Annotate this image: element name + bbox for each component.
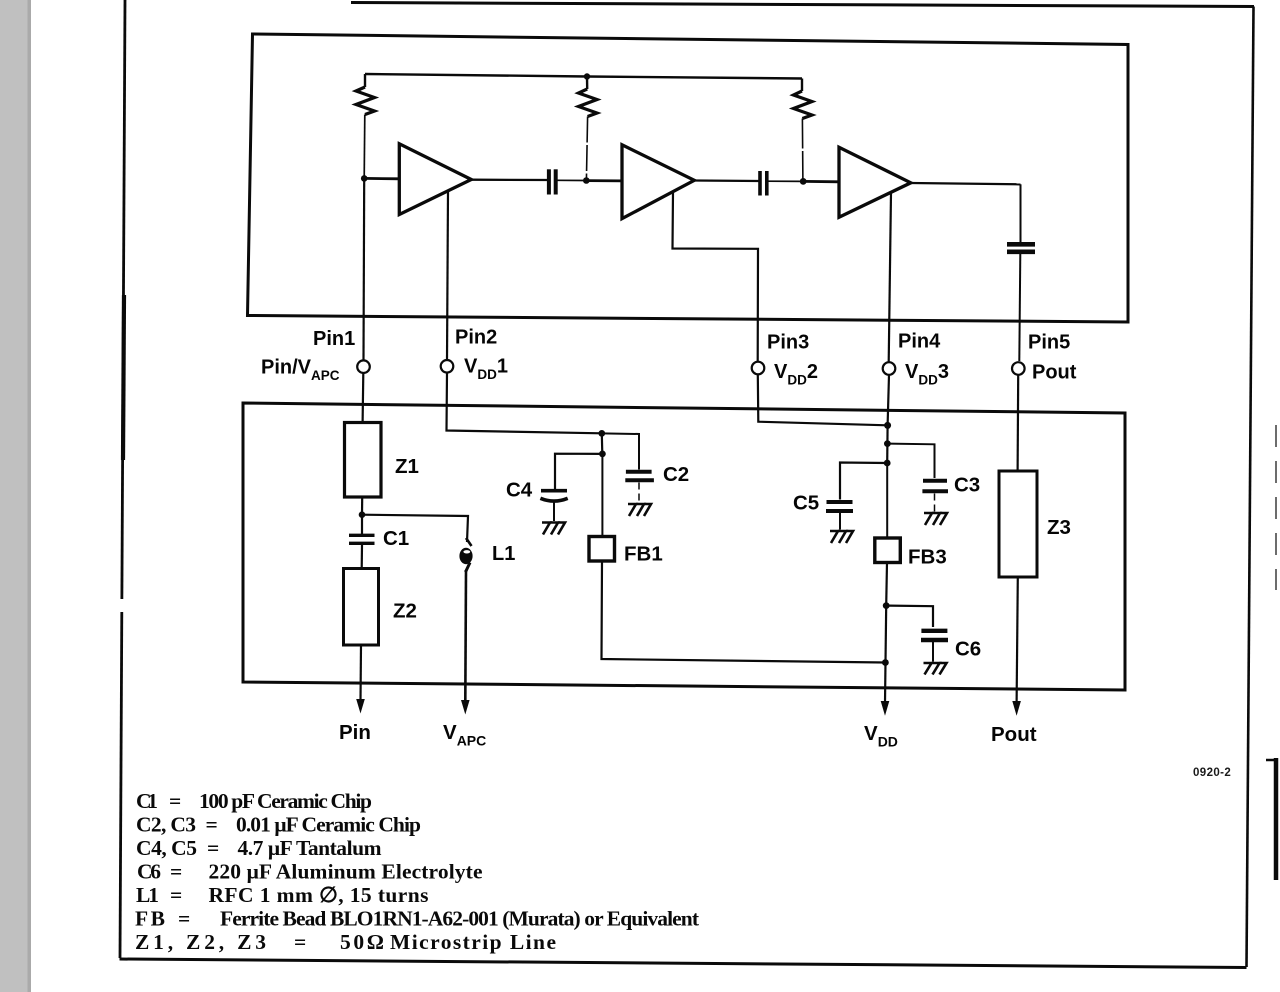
microstrip Z3 [999,471,1037,577]
wire: amp1 Vdd feed to Pin2 [447,192,448,361]
capacitor C3 [922,481,948,512]
node: amp3 input junction [800,178,807,185]
svg-text:C1: C1 [383,527,409,550]
wire: L1 down to Vapc arrow [464,570,467,702]
svg-text:C3: C3 [954,474,980,497]
node: Z1/C1/L1 junction [359,511,366,518]
capacitor (output DC block) [1007,244,1035,252]
wire: amp3 output [911,183,1021,184]
svg-text:VAPC: VAPC [443,721,486,749]
svg-text:Pin: Pin [339,721,371,744]
wire: amp1 output [471,179,549,182]
capacitor (coupling 1) [549,169,556,194]
wire: Z1 to node [361,497,363,515]
svg-text:L1: L1 [492,543,515,565]
svg-text:Pin3: Pin3 [767,332,809,354]
wire: Vdd down to FB3 [886,463,888,538]
pin Pin2 terminal [441,360,454,373]
svg-text:=: = [206,813,218,837]
microstrip Z1 [345,423,382,498]
svg-text:=: = [294,930,306,954]
supply rail wire (top) [365,74,802,79]
wire: amp2 output [694,179,759,182]
resistor R-bias3 [794,79,813,182]
inductor L1 (RFC coil) [459,538,472,572]
svg-text:Microstrip Line: Microstrip Line [390,930,556,954]
pin Pin3 terminal [752,362,765,375]
node: rail junction R-bias2 [584,73,590,79]
svg-text:L1: L1 [136,883,159,907]
svg-text:C1: C1 [136,789,158,813]
svg-text:C5: C5 [793,492,819,515]
svg-text:VDD3: VDD3 [905,361,949,388]
capacitor C5 (tantalum) [826,502,853,530]
op-amp A1 [399,144,471,215]
ground (C2) [628,504,651,516]
IC internal block outline [248,34,1129,322]
op-amp A2 [622,145,694,219]
svg-text:=: = [169,789,181,813]
wire: junction to C3 [887,444,934,478]
svg-text:VDD: VDD [864,722,898,750]
svg-text:C6: C6 [137,860,161,884]
legend line C1 [136,789,372,813]
node: amp2 input junction [583,177,590,184]
wire: Vdd to arrow [885,606,886,703]
svg-text:Pin2: Pin2 [455,327,497,349]
svg-text:4.7 μF Tantalum: 4.7 μF Tantalum [238,836,382,860]
svg-text:VDD1: VDD1 [464,356,508,383]
svg-text:Pout: Pout [1032,362,1077,384]
ground (C4) [542,523,565,535]
ferrite bead FB3 [875,538,901,563]
legend line FB [135,907,700,931]
capacitor C1 [349,515,375,569]
svg-text:RFC 1 mm ∅, 15 turns: RFC 1 mm ∅, 15 turns [209,883,429,907]
svg-text:Pin1: Pin1 [313,328,355,350]
svg-text:Pin/VAPC: Pin/VAPC [261,357,340,384]
svg-text:100 pF Ceramic Chip: 100 pF Ceramic Chip [199,789,372,813]
wire: Vdd down [886,425,888,443]
legend line C4 C5 [136,836,382,860]
capacitor C6 (electrolytic) [921,631,948,662]
wire: FB3 down [885,563,888,606]
wire: Pin2 to bypass rail [447,373,602,434]
svg-text:Z2: Z2 [393,600,417,623]
wire: output cap to Pin5 [1019,254,1020,361]
wire: Pin1 to amp1 input node [362,178,365,360]
ground (C6) [924,663,947,675]
svg-text:220 μF Aluminum Electrolyte: 220 μF Aluminum Electrolyte [209,860,483,884]
svg-text:C2: C2 [663,463,689,486]
wire: Z2 to Pin arrow [359,645,362,701]
scanner margin shading [0,0,31,992]
wire: junction stub down [601,433,604,454]
wire: Pin5 into Z3 [1016,375,1019,472]
node: C3 branch junction [884,440,891,447]
svg-text:0920-2: 0920-2 [1193,767,1231,779]
legend line C2 C3 [136,813,421,837]
capacitor (coupling 2) [760,171,767,196]
wire: FB1 to Vdd rail [602,561,886,663]
wire: Pin3 into box [758,375,888,426]
legend line L1 [136,883,429,907]
wire: Z3 to Pout arrow [1017,577,1018,703]
svg-text:Pout: Pout [991,723,1037,746]
ground (C3) [924,513,947,525]
svg-text:FB: FB [135,907,165,931]
svg-text:50Ω: 50Ω [340,930,384,954]
wire: Pin1 into Z1 [362,373,365,423]
wire: amp3 Vdd feed to Pin4 [889,193,891,363]
op-amp A3 [839,147,911,217]
svg-text:=: = [170,883,182,907]
legend line C6 [137,860,483,884]
arrow terminal Vapc [461,700,470,715]
wire: output drop to cap [1020,184,1022,242]
node: C4 branch junction [599,451,606,458]
node: C6 branch junction [883,602,890,609]
wire: junction down to FB1 [601,454,603,537]
svg-text:FB1: FB1 [624,543,663,566]
wire: junction to C2 [602,433,639,469]
svg-text:Pin5: Pin5 [1028,332,1070,354]
svg-text:0.01 μF Ceramic Chip: 0.01 μF Ceramic Chip [236,813,421,837]
microstrip Z2 [344,569,379,646]
resistor R-bias2 [579,77,598,181]
svg-text:=: = [170,860,182,884]
wire: junction to C5 [840,463,887,500]
wire: node to amp1 input [364,177,400,180]
pin Pin5 terminal [1012,362,1025,375]
svg-text:C6: C6 [955,638,981,661]
arrow terminal Pin [356,699,365,714]
svg-text:Z3: Z3 [1047,516,1071,539]
pin Pin1 terminal [357,360,370,373]
wire: junction to C4 [555,454,602,489]
node: Vdd/FB1 rail junction [882,659,889,666]
svg-text:Ferrite Bead BLO1RN1-A62-001 (: Ferrite Bead BLO1RN1-A62-001 (Murata) or… [220,907,700,931]
pin Pin4 terminal [883,362,896,375]
node: amp1 input junction [361,175,368,182]
capacitor C2 [625,472,654,503]
wire: Pin4 into box [888,375,889,425]
wire: Vdd down 2 [886,444,888,463]
resistor R-bias1 [356,74,375,178]
wire: amp2 Vdd feed to Pin3 [673,192,759,362]
svg-text:VDD2: VDD2 [774,361,818,388]
ferrite bead FB1 [589,537,615,562]
svg-text:C4, C5: C4, C5 [136,836,197,860]
svg-text:=: = [178,907,190,931]
node: Pin3/Pin4 Vdd junction [884,422,891,429]
svg-text:FB3: FB3 [908,546,947,569]
node: C5 branch junction [884,460,891,467]
svg-text:Z1: Z1 [395,455,419,478]
node: C4/C2/FB1 top junction [598,430,605,437]
svg-text:Z1, Z2, Z3: Z1, Z2, Z3 [135,930,266,954]
application circuit outline [243,403,1125,690]
wire: cap1 to amp2 input [556,179,586,181]
svg-text:C2, C3: C2, C3 [136,813,196,837]
legend line Z [135,930,556,954]
arrow terminal Vdd [881,701,890,716]
svg-text:C4: C4 [506,479,533,502]
wire: node to L1 [362,515,468,542]
arrow terminal Pout [1012,701,1021,716]
ground (C5) [830,531,853,543]
svg-text:=: = [207,836,219,860]
svg-text:Pin4: Pin4 [898,331,941,353]
wire: junction to C6 [886,606,933,627]
capacitor C4 (tantalum) [540,491,567,521]
